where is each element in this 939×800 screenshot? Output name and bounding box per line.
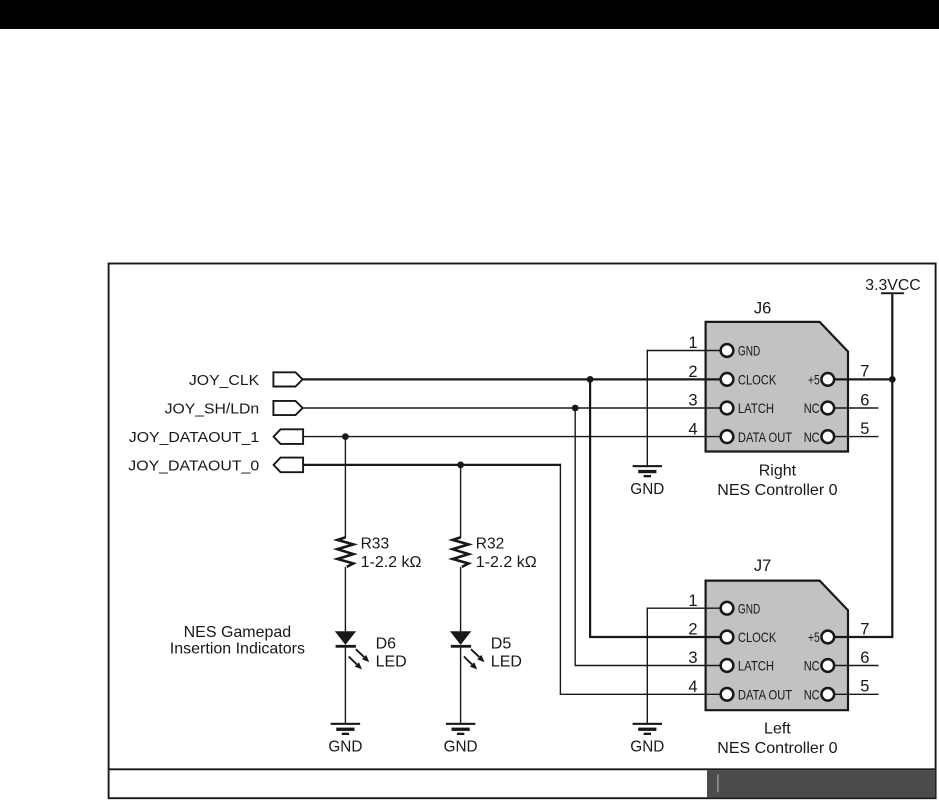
title block dark cell (707, 770, 935, 797)
wire J7 pin 5 NC stub (834, 693, 879, 695)
svg-text:GND: GND (630, 481, 664, 498)
port flag JOY_DATAOUT_0 (input) (274, 458, 304, 473)
svg-text:3.3VCC: 3.3VCC (865, 277, 920, 294)
J7 pin 1 circle (721, 602, 734, 615)
J6 pin 1 circle (721, 344, 734, 357)
junction JOY_DATAOUT_1 / R33 branch (342, 433, 349, 440)
wire JOY_CLK horizontal to J6 pin 2 (303, 378, 721, 380)
svg-text:D5: D5 (491, 635, 512, 652)
svg-text:1: 1 (688, 334, 697, 352)
wire R33 branch upper (344, 437, 346, 538)
svg-text:4: 4 (688, 420, 697, 438)
J6 pin 5 circle (821, 430, 834, 443)
wire latch horizontal into J7 pin 3 (575, 665, 722, 667)
wire J6 pin 1 to ground (647, 350, 721, 352)
wire J7 pin 1 to ground (647, 607, 721, 609)
wire JOY_DATAOUT_0 horizontal (303, 464, 561, 466)
svg-text:NES Controller 0: NES Controller 0 (717, 740, 837, 757)
ground symbol J6 (633, 465, 662, 477)
connector J7 body (706, 581, 848, 711)
svg-text:Right: Right (759, 463, 797, 480)
svg-text:LED: LED (491, 654, 522, 671)
svg-text:1-2.2 kΩ: 1-2.2 kΩ (476, 554, 537, 571)
svg-text:LED: LED (376, 654, 407, 671)
title block divider line (109, 768, 936, 770)
svg-text:CLOCK: CLOCK (738, 372, 777, 388)
wire J7 pin 6 NC stub (834, 665, 879, 667)
svg-text:NC: NC (804, 658, 820, 674)
LED D6 (335, 631, 356, 645)
J6 pin 3 circle (721, 402, 734, 415)
svg-text:3: 3 (688, 649, 697, 667)
svg-text:LATCH: LATCH (738, 658, 774, 674)
wire J7 pin 7 (+5) stub (834, 636, 894, 638)
LED D6 emission arrows (356, 649, 364, 657)
svg-text:5: 5 (860, 678, 869, 696)
svg-text:1: 1 (688, 592, 697, 610)
svg-text:2: 2 (688, 363, 697, 381)
wire J6 ground vertical (646, 350, 648, 466)
J7 pin 6 circle (821, 659, 834, 672)
svg-text:Left: Left (764, 721, 791, 738)
ground symbol D5 (446, 723, 475, 735)
wire J6 pin 6 NC stub (834, 407, 879, 409)
junction JOY_CLK / J7 clock drop (587, 376, 594, 383)
ground symbol D6 (331, 723, 360, 735)
wire JOY_DATAOUT_1 horizontal to J6 pin 4 (303, 436, 721, 438)
svg-text:6: 6 (860, 391, 869, 409)
schematic sheet frame (109, 264, 936, 799)
svg-text:D6: D6 (376, 635, 397, 652)
svg-text:DATA OUT: DATA OUT (738, 429, 793, 445)
svg-text:GND: GND (738, 343, 760, 359)
J6 pin 4 circle (721, 430, 734, 443)
svg-text:R32: R32 (476, 535, 505, 552)
svg-text:5: 5 (860, 420, 869, 438)
svg-text:GND: GND (630, 739, 664, 756)
svg-text:R33: R33 (361, 535, 390, 552)
svg-text:+5: +5 (808, 629, 820, 645)
wire R32 to D5 (460, 567, 462, 632)
wire JOY_SH/LDn horizontal to J6 pin 3 (303, 407, 721, 409)
ground symbol J7 (633, 723, 662, 735)
svg-text:+5: +5 (808, 372, 820, 388)
resistor R32 (453, 537, 469, 567)
wire dataout0 vertical drop to J7 (559, 464, 561, 695)
svg-text:6: 6 (860, 649, 869, 667)
wire R33 to D6 (344, 567, 346, 632)
wire R32 branch upper (460, 465, 462, 538)
junction 3.3VCC / J6 +5 (889, 376, 896, 383)
J6 pin 6 circle (821, 402, 834, 415)
svg-text:JOY_SH/LDn: JOY_SH/LDn (165, 401, 260, 418)
wire latch vertical drop to J7 (574, 408, 576, 666)
wire D6 to ground (344, 648, 346, 724)
svg-text:NES Controller 0: NES Controller 0 (717, 482, 837, 499)
port flag JOY_DATAOUT_1 (input) (274, 429, 304, 444)
svg-text:GND: GND (738, 600, 760, 616)
svg-text:J7: J7 (754, 557, 771, 575)
svg-text:1-2.2 kΩ: 1-2.2 kΩ (361, 554, 422, 571)
port flag JOY_CLK (output) (273, 372, 302, 386)
svg-text:DATA OUT: DATA OUT (738, 687, 793, 703)
wire clock horizontal into J7 pin 2 (589, 636, 721, 638)
J7 pin 2 circle (721, 631, 734, 644)
svg-text:Insertion Indicators: Insertion Indicators (170, 640, 305, 657)
svg-text:7: 7 (860, 363, 869, 381)
wire 3.3VCC vertical (891, 294, 893, 637)
svg-text:GND: GND (444, 739, 478, 756)
svg-text:NC: NC (804, 400, 820, 416)
svg-text:CLOCK: CLOCK (738, 629, 777, 645)
wire J7 ground vertical (646, 608, 648, 724)
J6 pin 2 circle (721, 373, 734, 386)
svg-text:3: 3 (688, 392, 697, 410)
port flag JOY_SH/LDn (output) (273, 401, 302, 415)
J7 pin 5 circle (821, 688, 834, 701)
J7 pin 7 circle (821, 631, 834, 644)
J6 pin 7 circle (821, 373, 834, 386)
wire J6 pin 5 NC stub (834, 436, 879, 438)
svg-text:NC: NC (804, 429, 820, 445)
top black banner bar (0, 0, 939, 29)
power bar 3.3VCC (881, 292, 904, 294)
svg-text:NES Gamepad: NES Gamepad (184, 624, 292, 641)
LED D5 emission arrows (471, 649, 479, 657)
svg-text:J6: J6 (754, 299, 771, 317)
svg-text:LATCH: LATCH (738, 400, 774, 416)
wire clock vertical drop to J7 (589, 379, 591, 637)
svg-text:2: 2 (688, 621, 697, 639)
connector J6 body (706, 322, 848, 452)
junction JOY_DATAOUT_0 / R32 branch (457, 462, 464, 469)
J7 pin 3 circle (721, 659, 734, 672)
junction JOY_SH/LDn / J7 latch drop (572, 405, 579, 412)
wire D5 to ground (460, 648, 462, 724)
resistor R33 (337, 537, 353, 567)
wire dataout0 horizontal into J7 pin 4 (560, 693, 721, 695)
svg-text:4: 4 (688, 678, 697, 696)
LED D5 (450, 631, 471, 645)
svg-text:NC: NC (804, 687, 820, 703)
svg-text:GND: GND (328, 739, 362, 756)
wire J6 pin 7 (+5) stub (834, 378, 894, 380)
svg-text:JOY_DATAOUT_1: JOY_DATAOUT_1 (129, 429, 259, 446)
svg-text:7: 7 (860, 620, 869, 638)
J7 pin 4 circle (721, 688, 734, 701)
svg-text:JOY_CLK: JOY_CLK (189, 372, 259, 389)
title block cell inner light tick (717, 774, 718, 792)
svg-text:JOY_DATAOUT_0: JOY_DATAOUT_0 (128, 458, 259, 475)
